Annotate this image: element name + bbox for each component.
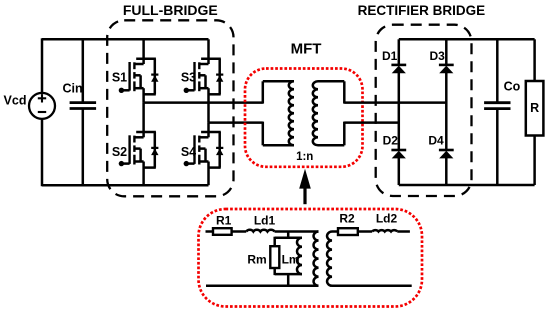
resistor R1 box [213, 228, 232, 235]
label S4 [181, 145, 196, 159]
label Vcd [4, 93, 27, 107]
resistor R box [526, 81, 544, 136]
svg-text:Cin: Cin [63, 81, 83, 95]
wire Ld2 out [397, 230, 410, 233]
wire Cin branch top [82, 39, 85, 102]
svg-text:D3: D3 [430, 49, 446, 63]
wire shunt block bottom bar [275, 273, 302, 276]
wire Vcd branch top [41, 38, 44, 93]
svg-text:MFT: MFT [291, 40, 322, 57]
svg-text:1:n: 1:n [296, 151, 313, 163]
svg-text:R: R [530, 101, 539, 115]
wire rectifier top rail [399, 38, 535, 41]
transistor S4 (MOSFET) [184, 123, 224, 186]
label 1:n [296, 151, 313, 163]
inductor eq transformer primary [314, 232, 319, 286]
svg-text:R1: R1 [216, 213, 232, 227]
wire R branch bottom [533, 135, 536, 185]
svg-text:D4: D4 [428, 134, 444, 148]
svg-text:S2: S2 [112, 145, 127, 159]
wire eq secondary bottom [332, 285, 412, 288]
wire Co branch bottom [496, 109, 499, 185]
wire Vcd branch bottom [41, 119, 44, 187]
MFT secondary upper terminal [343, 81, 346, 103]
capacitor Cin plates [70, 103, 97, 109]
wire eq secondary top stub [332, 230, 338, 233]
svg-text:S3: S3 [181, 71, 196, 85]
dashed box FULL-BRIDGE [107, 20, 233, 196]
Vcd minus sign [38, 111, 46, 113]
wire rectifier left leg lower [398, 158, 401, 185]
diode D3 [439, 65, 454, 73]
svg-text:Rm: Rm [247, 253, 266, 267]
label Lm [282, 253, 300, 267]
wire rectifier right leg upper [445, 39, 448, 66]
wire rectifier bottom rail [399, 184, 535, 187]
MFT primary upper terminal [262, 81, 265, 103]
label FULL-BRIDGE title [123, 2, 218, 18]
label Cin [63, 81, 83, 95]
diode D2 [391, 150, 406, 158]
wire eq primary bottom [206, 285, 319, 288]
inductor MFT primary winding [289, 81, 294, 145]
wire bottom rail (input side) [42, 184, 209, 187]
label S3 [181, 71, 196, 85]
wire Ld1 to eq primary [275, 230, 319, 233]
wire shunt branch bottom drop [287, 274, 290, 286]
label Co [504, 80, 521, 94]
label Rm [247, 253, 266, 267]
diode D1 [391, 65, 406, 73]
label D4 [428, 134, 444, 148]
arrow from equivalent circuit to MFT [299, 169, 311, 204]
wire rectifier right leg middle [445, 73, 448, 150]
label D2 [383, 134, 399, 148]
wire R branch top [533, 39, 536, 82]
capacitor Co plates [484, 103, 510, 109]
wire Cin branch bottom [82, 109, 85, 186]
MFT secondary lower terminal [343, 122, 346, 146]
label S1 [112, 71, 127, 85]
dashed box RECTIFIER BRIDGE [376, 25, 472, 196]
label MFT title [291, 40, 322, 57]
wire shunt branch top drop [287, 232, 290, 238]
label R [530, 101, 539, 115]
red dotted box MFT [245, 69, 363, 167]
wire shunt block top bar [275, 236, 302, 239]
label RECTIFIER BRIDGE title [358, 3, 486, 18]
label R1 [216, 213, 232, 227]
svg-text:D2: D2 [383, 134, 399, 148]
MFT secondary bottom wire [318, 144, 344, 147]
svg-text:Ld1: Ld1 [254, 213, 276, 227]
wire R2 to Ld2 [358, 230, 372, 233]
resistor R2 box [338, 228, 358, 235]
transistor S2 (MOSFET) [119, 103, 159, 186]
wire MFT to rectifier lower [344, 121, 399, 124]
label D1 [382, 49, 398, 63]
MFT primary lower terminal [262, 122, 265, 146]
Vcd plus sign [38, 94, 46, 102]
inductor MFT secondary winding [313, 81, 318, 145]
svg-text:RECTIFIER BRIDGE: RECTIFIER BRIDGE [358, 3, 486, 18]
inductor Ld1 [246, 230, 274, 232]
svg-text:S1: S1 [112, 71, 127, 85]
transistor S1 (MOSFET) [119, 39, 159, 102]
source Vcd circle [29, 93, 55, 119]
label Ld2 [376, 212, 398, 226]
wire rectifier right leg lower [445, 158, 448, 185]
svg-text:Ld2: Ld2 [376, 212, 398, 226]
svg-text:Co: Co [504, 80, 521, 94]
wire Rm top lead [273, 237, 276, 247]
wire rectifier left leg upper [398, 39, 401, 66]
inductor Ld2 [372, 230, 397, 231]
svg-text:D1: D1 [382, 49, 398, 63]
wire bridge output upper (S1-S2 node to MFT) [144, 101, 263, 104]
label S2 [112, 145, 127, 159]
MFT primary top wire [263, 80, 294, 83]
label Ld1 [254, 213, 276, 227]
wire rectifier left leg middle [398, 73, 401, 150]
inductor eq transformer secondary [327, 232, 332, 286]
MFT secondary top wire [318, 80, 344, 83]
wire R1 to Ld1 [232, 230, 247, 233]
svg-text:Lm: Lm [282, 253, 300, 267]
svg-text:R2: R2 [339, 212, 355, 226]
wire Co branch top [496, 39, 499, 102]
label R2 [339, 212, 355, 226]
diode D4 [439, 150, 454, 158]
svg-text:S4: S4 [181, 145, 196, 159]
resistor Rm box [270, 246, 279, 268]
inductor Lm [297, 238, 302, 274]
transistor S3 (MOSFET) [184, 39, 224, 122]
wire eq primary input stub [206, 230, 214, 233]
MFT primary bottom wire [263, 144, 294, 147]
red dotted box equivalent circuit [199, 209, 423, 307]
wire top rail (input side) [42, 38, 209, 41]
svg-text:FULL-BRIDGE: FULL-BRIDGE [123, 2, 218, 18]
wire bridge output lower (S3-S4 node to MFT) [209, 121, 263, 124]
wire Rm bottom lead [273, 268, 276, 276]
wire MFT to rectifier upper [344, 101, 446, 104]
label D3 [430, 49, 446, 63]
svg-text:Vcd: Vcd [4, 93, 27, 107]
